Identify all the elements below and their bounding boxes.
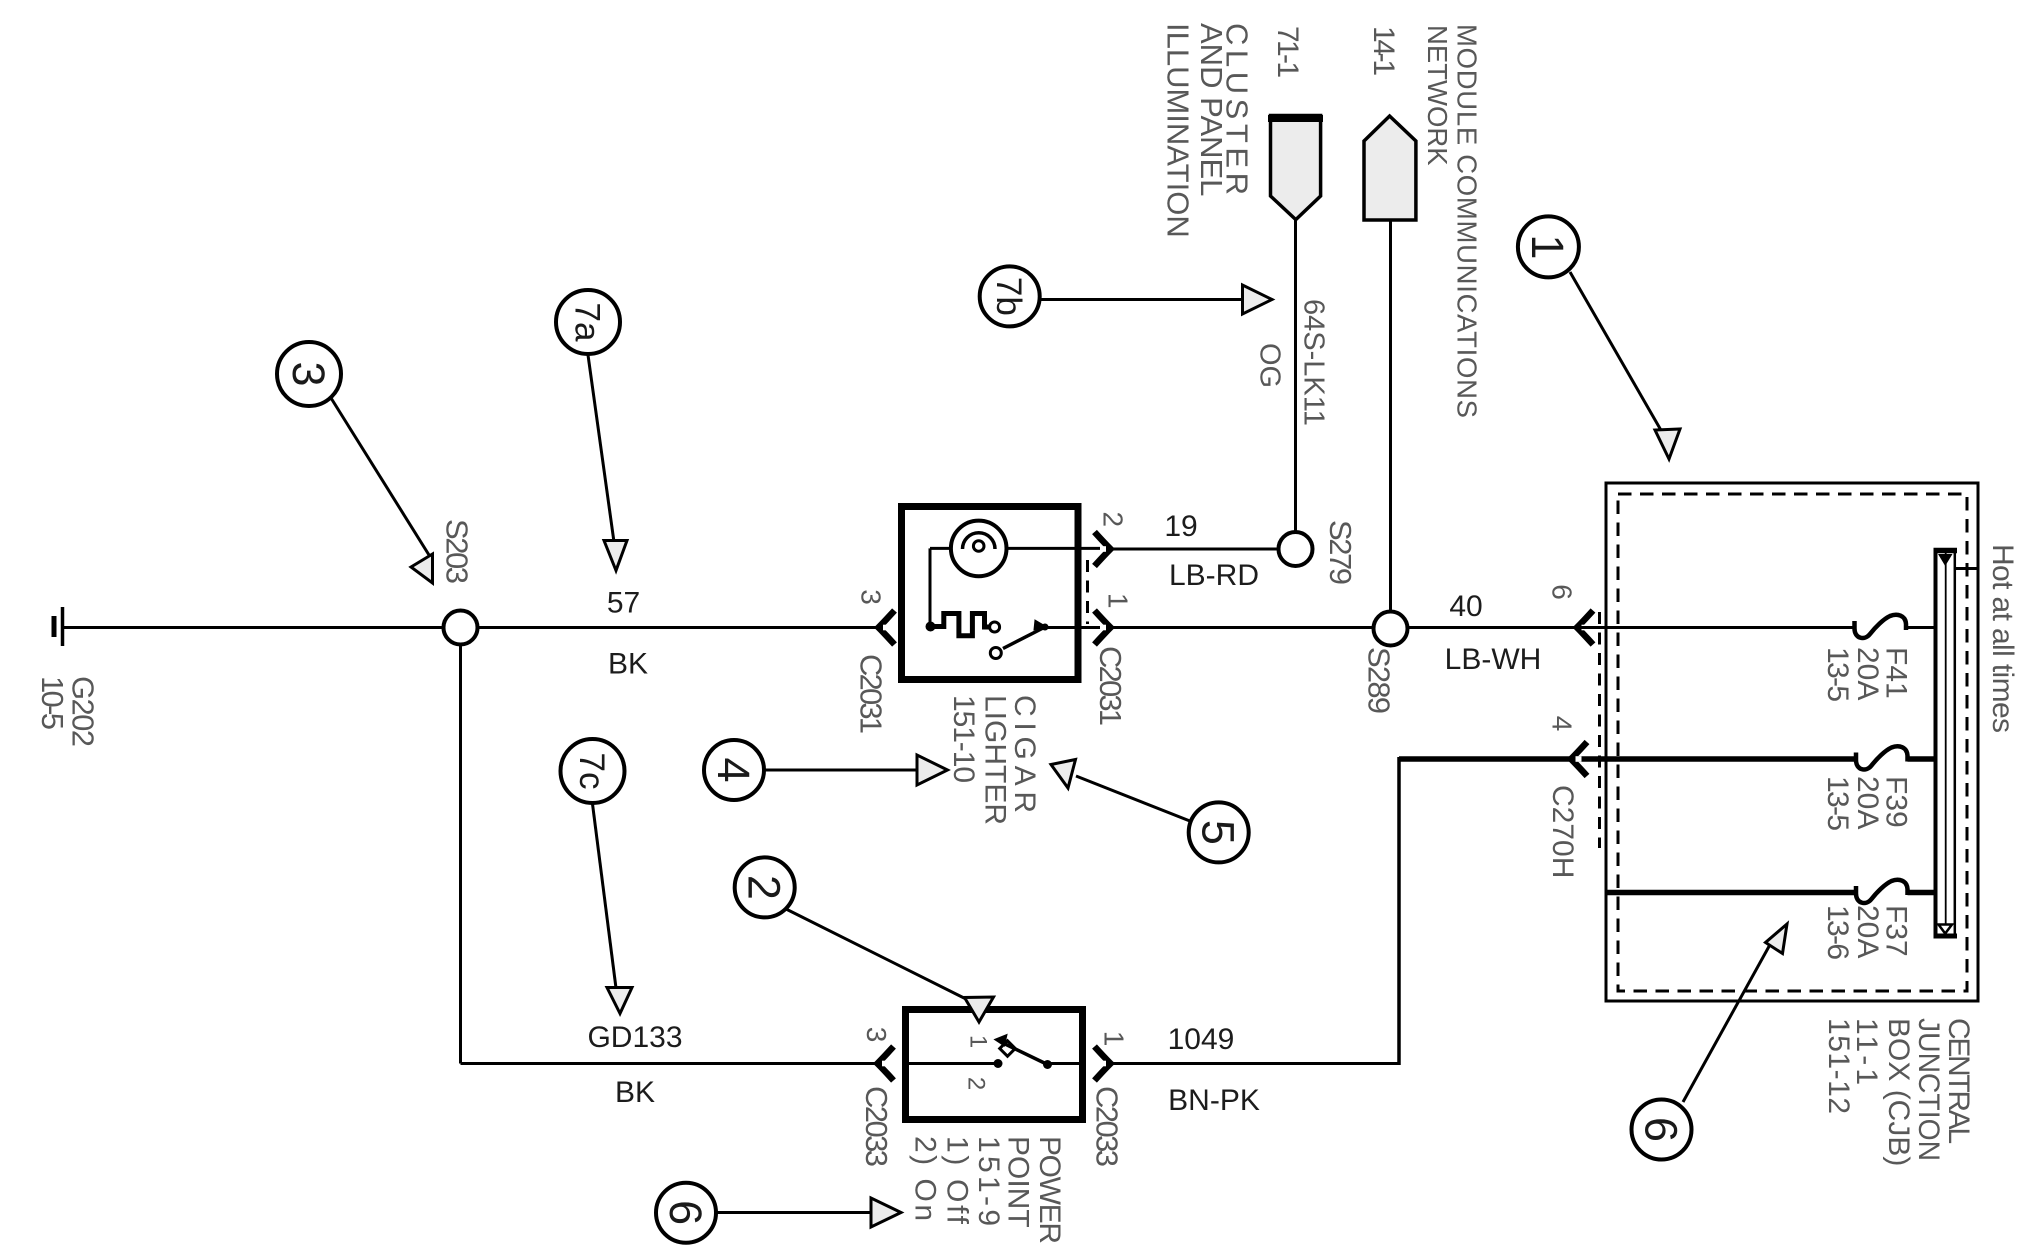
svg-text:10-5: 10-5 xyxy=(35,676,70,730)
pin 3 C2031 xyxy=(853,589,894,734)
svg-text:BK: BK xyxy=(608,647,648,680)
svg-text:MODULE COMMUNICATIONS: MODULE COMMUNICATIONS xyxy=(1452,24,1483,418)
wire: S203 down and right to power point pin 3 (GD133 BK) xyxy=(461,628,878,1064)
callout 6 (power point) xyxy=(656,1183,901,1243)
pin 1 C2033 xyxy=(1089,1031,1129,1167)
lamp (cigar lighter illumination) xyxy=(930,521,1111,577)
svg-text:4: 4 xyxy=(1546,716,1577,732)
svg-text:BOX (CJB): BOX (CJB) xyxy=(1882,1018,1915,1166)
svg-text:1: 1 xyxy=(1522,234,1573,259)
svg-text:71-1: 71-1 xyxy=(1271,26,1304,78)
callout 6 (CJB fuse F37) xyxy=(1632,924,1788,1160)
connector C270H dashed line xyxy=(1598,612,1601,848)
junction dot xyxy=(926,622,936,632)
power point box xyxy=(906,1010,1083,1120)
label 19 LB-RD xyxy=(1164,510,1259,592)
wire: S279 up to cluster connector (64S-LK11 OG) xyxy=(1294,220,1297,532)
svg-text:13-5: 13-5 xyxy=(1821,776,1854,831)
svg-text:20A: 20A xyxy=(1851,905,1884,958)
svg-text:20A: 20A xyxy=(1851,776,1884,829)
svg-text:40: 40 xyxy=(1449,590,1482,623)
svg-text:LB-RD: LB-RD xyxy=(1169,559,1259,592)
svg-text:7c: 7c xyxy=(572,753,611,790)
svg-text:151-12: 151-12 xyxy=(1822,1018,1855,1114)
central junction box outer xyxy=(1606,483,1978,1001)
svg-text:2: 2 xyxy=(962,1077,989,1090)
svg-text:13-5: 13-5 xyxy=(1821,647,1854,702)
svg-text:7b: 7b xyxy=(989,277,1028,316)
ground G202 xyxy=(54,607,63,646)
svg-text:GD133: GD133 xyxy=(587,1021,682,1054)
fuse F37 20A xyxy=(1821,880,1935,960)
callout 2 xyxy=(735,857,994,1022)
svg-text:CIGAR: CIGAR xyxy=(1008,695,1041,813)
svg-text:JUNCTION: JUNCTION xyxy=(1912,1018,1945,1161)
label CENTRAL JUNCTION BOX (CJB) 11-1 151-12 xyxy=(1822,1018,1975,1166)
svg-text:5: 5 xyxy=(1193,820,1244,845)
svg-text:3: 3 xyxy=(283,361,334,386)
svg-text:2: 2 xyxy=(1098,512,1129,528)
connector C2031 dashed line xyxy=(1086,560,1089,624)
svg-text:19: 19 xyxy=(1164,510,1197,543)
splice S289 xyxy=(1361,612,1407,715)
pin 1 C2031 xyxy=(1093,593,1134,726)
pin 3 C2033 xyxy=(859,1027,894,1167)
label 40 LB-WH xyxy=(1445,590,1542,676)
wire: S289 up to module communications network connector xyxy=(1389,220,1392,612)
svg-text:NETWORK: NETWORK xyxy=(1422,25,1453,166)
svg-text:1: 1 xyxy=(964,1035,991,1048)
fuse F41 20A xyxy=(1821,615,1935,702)
label G202 10-5 xyxy=(35,676,101,747)
svg-text:6: 6 xyxy=(1635,1117,1686,1142)
callout 1 xyxy=(1518,216,1680,459)
contact circle xyxy=(990,622,1000,632)
svg-text:C2033: C2033 xyxy=(859,1086,894,1167)
svg-text:CENTRAL: CENTRAL xyxy=(1942,1018,1975,1144)
label 57 BK xyxy=(607,586,648,680)
labels 1 2 inside power point xyxy=(962,1035,991,1090)
svg-text:14-1: 14-1 xyxy=(1367,26,1400,76)
callout 5 xyxy=(1051,760,1249,863)
svg-text:13-6: 13-6 xyxy=(1821,905,1854,960)
off-page connector 71-1 (cluster and panel illumination) xyxy=(1268,116,1323,220)
contact 2 dot xyxy=(994,1059,1003,1068)
callout 7a xyxy=(556,290,627,571)
wire: pin 2 to S279 (19 LB-RD) xyxy=(1111,548,1279,551)
fuse F39 20A (thick wire) xyxy=(1821,746,1935,831)
svg-text:1) Off: 1) Off xyxy=(941,1136,974,1225)
svg-text:C2033: C2033 xyxy=(1089,1086,1124,1167)
bus bar feed xyxy=(1955,567,1977,570)
pin 4 C270H xyxy=(1546,716,1587,879)
pin 2 C2031 xyxy=(1095,512,1129,566)
splice S279 xyxy=(1279,520,1358,585)
svg-text:151-9: 151-9 xyxy=(972,1136,1005,1226)
callout 4 xyxy=(704,740,948,800)
callout 7b xyxy=(980,266,1272,326)
off-page connector 14-1 (module communications network) xyxy=(1364,116,1416,220)
bus bar (hot at all times) xyxy=(1934,549,1958,937)
svg-text:S203: S203 xyxy=(439,519,474,584)
label CLUSTER AND PANEL ILLUMINATION xyxy=(1160,23,1254,238)
switch blade (cigar lighter) xyxy=(990,620,1111,659)
svg-text:OG: OG xyxy=(1254,343,1286,388)
label POWER POINT 151-9 1) Off 2) On xyxy=(909,1136,1066,1244)
svg-text:2: 2 xyxy=(739,875,790,900)
svg-text:BK: BK xyxy=(615,1076,655,1109)
cigar lighter box xyxy=(902,507,1079,680)
wire: 1049 BN-PK power point pin 1 to CJB pin 4 xyxy=(1111,757,1857,1065)
svg-text:6: 6 xyxy=(1546,584,1577,600)
svg-text:151-10: 151-10 xyxy=(947,695,980,783)
svg-text:BN-PK: BN-PK xyxy=(1168,1084,1260,1117)
callout 7c xyxy=(561,739,633,1014)
switch blade (power point) xyxy=(995,1035,1053,1070)
svg-text:3: 3 xyxy=(855,589,886,605)
svg-text:57: 57 xyxy=(607,586,640,619)
callout 3 xyxy=(277,342,433,583)
svg-text:20A: 20A xyxy=(1851,647,1884,700)
svg-text:LB-WH: LB-WH xyxy=(1445,643,1542,676)
svg-text:1049: 1049 xyxy=(1168,1023,1235,1056)
svg-text:LIGHTER: LIGHTER xyxy=(979,695,1012,825)
central junction box dashed xyxy=(1618,494,1967,991)
svg-text:1: 1 xyxy=(1098,1031,1129,1047)
svg-text:6: 6 xyxy=(660,1200,711,1225)
heating element (cigar lighter) xyxy=(931,614,990,636)
svg-text:C270H: C270H xyxy=(1546,785,1579,878)
label CIGAR LIGHTER 151-10 xyxy=(947,695,1041,825)
label GD133 BK xyxy=(587,1021,682,1109)
label 1049 BN-PK xyxy=(1168,1023,1260,1117)
power point internal wire xyxy=(905,1062,1085,1065)
svg-text:4: 4 xyxy=(708,757,759,782)
svg-text:64S-LK11: 64S-LK11 xyxy=(1298,299,1330,426)
svg-text:AND PANEL: AND PANEL xyxy=(1194,23,1229,196)
wire F41 row xyxy=(1577,626,1854,629)
svg-text:Hot at all times: Hot at all times xyxy=(1986,544,2019,733)
svg-text:POINT: POINT xyxy=(1002,1136,1035,1228)
svg-text:1: 1 xyxy=(1103,593,1134,609)
label MODULE COMMUNICATIONS NETWORK xyxy=(1422,24,1483,418)
svg-text:2) On: 2) On xyxy=(909,1136,942,1221)
wire: ground to cigar lighter pin 3 (57 BK) xyxy=(63,626,879,629)
wire lamp to heating element xyxy=(929,548,932,627)
svg-text:S289: S289 xyxy=(1361,647,1396,714)
svg-text:ILLUMINATION: ILLUMINATION xyxy=(1160,23,1195,238)
wire F37 row (thick) xyxy=(1607,890,1856,896)
contact 1 diamond xyxy=(1000,1041,1016,1057)
svg-text:3: 3 xyxy=(861,1027,892,1043)
label 64S-LK11 OG xyxy=(1254,299,1330,426)
svg-text:C2031: C2031 xyxy=(1093,646,1128,726)
pin 6 C270H xyxy=(1546,584,1593,644)
svg-text:C2031: C2031 xyxy=(853,654,888,734)
svg-text:7a: 7a xyxy=(567,303,606,342)
svg-text:POWER: POWER xyxy=(1033,1136,1066,1244)
wire: pin 1 through S289 to CJB pin 6 (40 LB-WH) xyxy=(1111,626,1577,629)
svg-text:S279: S279 xyxy=(1323,520,1358,585)
splice S203 xyxy=(439,519,477,645)
